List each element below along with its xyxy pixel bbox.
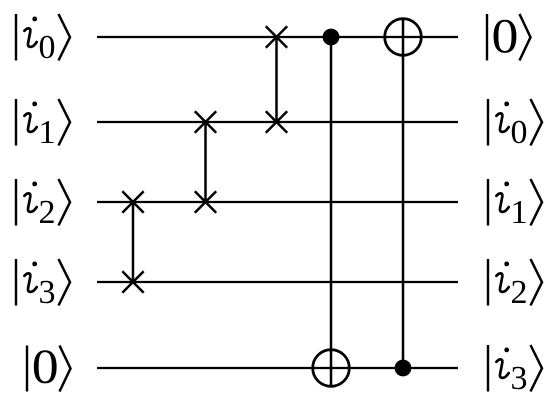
- label right ket |i0> angle bracket: [531, 99, 543, 146]
- label left ket |i0> bar: [15, 14, 17, 61]
- label left ket |i3> bar: [15, 259, 17, 306]
- svg-text:0: 0: [511, 114, 528, 151]
- wire qubit line 5: [97, 367, 458, 369]
- svg-text:0: 0: [32, 340, 59, 394]
- label left ket |i1> angle bracket: [59, 99, 71, 146]
- label right ket |i2> angle bracket: [531, 259, 543, 306]
- svg-text:3: 3: [39, 274, 56, 311]
- label right ket |0> bar: [486, 14, 488, 61]
- wire qubit line 4: [97, 281, 458, 283]
- swap gate S3 vertical wire: [275, 37, 278, 122]
- svg-text:2: 2: [511, 274, 528, 311]
- label right ket |i0> bar: [487, 99, 489, 146]
- label right ket |i1> bar: [487, 179, 489, 226]
- label left ket |i2> letter i: [24, 182, 37, 212]
- svg-text:1: 1: [511, 194, 528, 231]
- wire qubit line 3: [97, 201, 458, 203]
- swap gate S1 vertical wire: [132, 202, 135, 282]
- label right ket |i3> letter i: [496, 348, 509, 378]
- wire qubit line 2: [97, 121, 458, 123]
- svg-text:0: 0: [492, 9, 519, 63]
- CNOT 1 target circle on wire 5: [313, 350, 350, 387]
- label right ket |i1> letter i: [496, 182, 509, 212]
- label left ket |0> angle bracket: [60, 346, 71, 392]
- swap gate S1 cross on wire 4: [122, 271, 143, 292]
- label left ket |i0> letter i: [24, 17, 37, 47]
- CNOT 1 control dot on wire 1: [323, 29, 340, 46]
- label right ket |0> angle bracket: [520, 14, 531, 61]
- label right ket |i3> angle bracket: [531, 345, 543, 392]
- label right ket |i1> angle bracket: [531, 179, 543, 226]
- swap gate S2 vertical wire: [204, 122, 207, 202]
- label left ket |i1> bar: [15, 99, 17, 146]
- CNOT 2 control dot on wire 5: [395, 360, 412, 377]
- label left ket |0> bar: [26, 346, 28, 392]
- CNOT 2 target circle on wire 1: [385, 19, 422, 56]
- CNOT 2 vertical wire: [402, 19, 405, 368]
- swap gate S3 cross on wire 1: [266, 26, 287, 47]
- label left ket |i1> letter i: [24, 102, 37, 132]
- svg-text:1: 1: [39, 114, 56, 151]
- label right ket |i2> letter i: [496, 262, 509, 292]
- wire qubit line 1: [97, 36, 458, 38]
- swap gate S3 cross on wire 2: [266, 111, 287, 132]
- label right ket |i2> bar: [487, 259, 489, 306]
- label right ket |i3> bar: [487, 345, 489, 392]
- svg-text:0: 0: [39, 29, 56, 66]
- swap gate S2 cross on wire 3: [195, 191, 216, 212]
- CNOT 1 vertical wire: [330, 37, 333, 386]
- label left ket |i2> angle bracket: [59, 179, 71, 226]
- label right ket |i0> letter i: [496, 102, 509, 132]
- svg-text:3: 3: [511, 360, 528, 397]
- label left ket |i0> angle bracket: [59, 14, 71, 61]
- label left ket |i3> angle bracket: [59, 259, 71, 306]
- label left ket |i2> bar: [15, 179, 17, 226]
- swap gate S2 cross on wire 2: [195, 111, 216, 132]
- label left ket |i3> letter i: [24, 262, 37, 292]
- svg-text:2: 2: [39, 194, 56, 231]
- swap gate S1 cross on wire 3: [122, 191, 143, 212]
